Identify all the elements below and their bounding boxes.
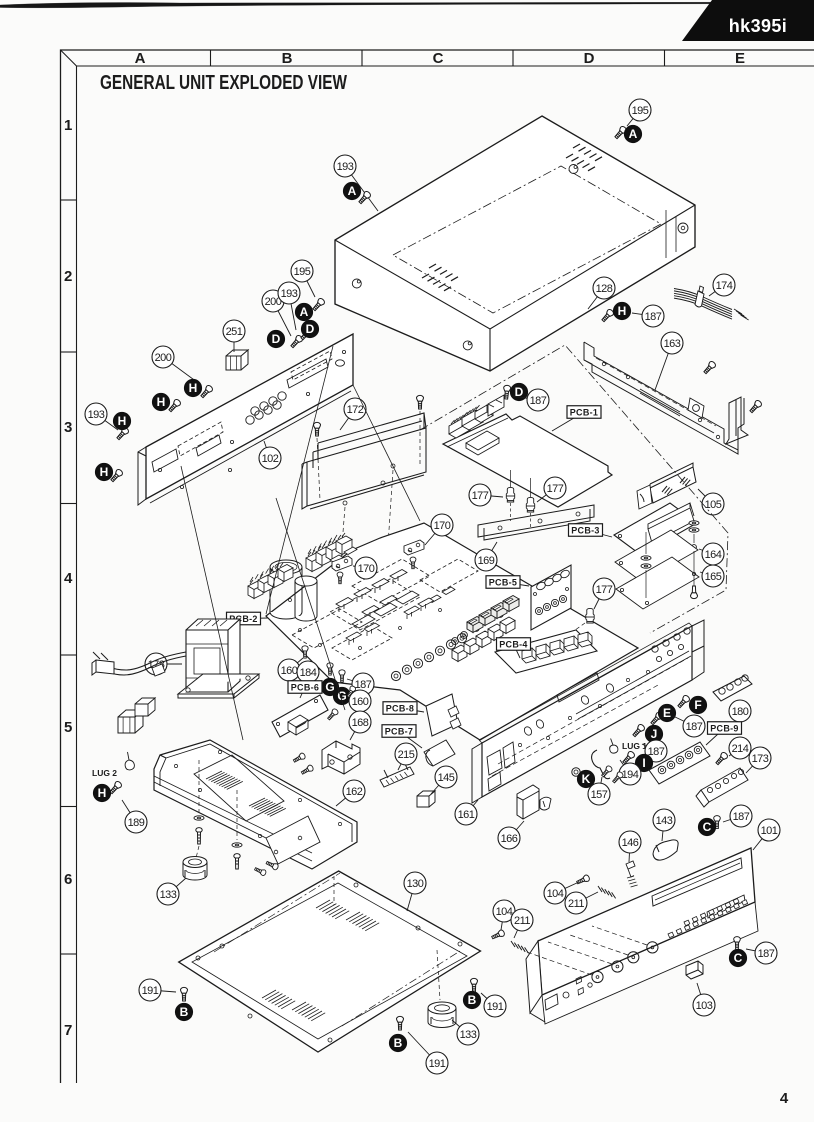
- wire harness 174 frayed ends: [734, 309, 749, 320]
- chassis 162 vent group 1: [206, 771, 243, 789]
- power cord: [110, 652, 186, 670]
- svg-text:5: 5: [64, 719, 72, 736]
- balloon 187 bottom right: [746, 942, 777, 964]
- letter D balloon upper-right: [301, 320, 318, 337]
- svg-text:PCB-6: PCB-6: [291, 682, 320, 692]
- chassis 162 washer and screw mid: [232, 843, 242, 847]
- heatsink bracket 172: [302, 413, 426, 509]
- svg-text:211: 211: [568, 898, 584, 910]
- sub panel 102 right opening: [287, 359, 328, 388]
- balloon 164: [699, 543, 724, 565]
- front panel 101 backing sheet: [542, 902, 758, 1024]
- PCB-1 flat module: [466, 431, 499, 455]
- balloon 102: [259, 441, 281, 469]
- svg-text:193: 193: [337, 161, 354, 173]
- screw near H top: [600, 308, 614, 323]
- relay row left on PCB-2: [248, 580, 263, 599]
- letter A balloon top-right: [624, 125, 641, 142]
- PCB-5 oval holes: [535, 569, 570, 591]
- top cover 128 rear vent slots: [566, 154, 595, 171]
- balloon 187 near C top: [723, 805, 752, 827]
- screws near 157: [600, 765, 613, 778]
- front chassis panel 161 outline: [482, 626, 692, 797]
- standoff 177 bottom: [586, 608, 594, 623]
- svg-text:173: 173: [752, 753, 769, 765]
- svg-text:H: H: [118, 414, 127, 428]
- svg-text:D: D: [584, 50, 595, 67]
- transistor group dashed box B: [352, 559, 430, 603]
- PCB-2 pin hatches near relays: [250, 563, 279, 582]
- balloon 105: [698, 489, 724, 515]
- front panel 101 knob shafts: [524, 951, 592, 975]
- svg-text:166: 166: [501, 833, 518, 845]
- PCB-2 dashed box C: [292, 609, 362, 648]
- balloon 184: [297, 661, 319, 683]
- AC connector box: [135, 698, 155, 716]
- svg-text:2: 2: [64, 268, 72, 285]
- panel 161 right end holes: [652, 628, 690, 652]
- panel 161 dashed lines: [498, 658, 688, 764]
- phono jack row small: [452, 611, 504, 645]
- svg-text:128: 128: [596, 283, 613, 295]
- bottom cover 130 dash-dot lines: [214, 873, 460, 1026]
- svg-text:B: B: [394, 1036, 403, 1050]
- transformer 178 top hatch: [196, 620, 227, 626]
- letter D balloon upper-left: [267, 330, 284, 347]
- svg-text:103: 103: [696, 1000, 713, 1012]
- heatsink 172 studs: [343, 464, 395, 505]
- svg-text:172: 172: [347, 404, 364, 416]
- balloon 168: [349, 711, 371, 740]
- svg-text:189: 189: [128, 817, 145, 829]
- chassis 162 inner wall: [160, 744, 352, 842]
- projection line panel102 right to PCB-2 top: [353, 385, 420, 521]
- PCB-1 connectors: [449, 418, 470, 438]
- row dividers: [61, 199, 77, 201]
- svg-text:6: 6: [64, 871, 72, 888]
- washers right of PCB-3: [689, 521, 699, 525]
- PCB-5 small holes: [534, 588, 569, 596]
- svg-text:7: 7: [64, 1022, 72, 1039]
- transformer 178 bracket: [178, 674, 259, 698]
- bracket 168: [322, 741, 360, 774]
- knob 103: [686, 961, 703, 979]
- transformer 178 core: [186, 619, 240, 692]
- svg-text:102: 102: [262, 453, 279, 465]
- PCB-5 jacks: [535, 595, 566, 614]
- balloon 133 right: [452, 1020, 479, 1045]
- bottom cover 130 vent group 2b: [292, 1002, 325, 1021]
- balloon 195 top-right: [627, 99, 651, 126]
- balloon 251: [223, 320, 245, 352]
- PCB-1 screw D3: [503, 385, 511, 399]
- relay row upper on PCB-2: [306, 550, 322, 572]
- PCB-1 board outline: [443, 414, 612, 507]
- part 143 head cap: [653, 840, 678, 860]
- panel 161 top lip: [479, 623, 692, 743]
- PCB-6 holes: [276, 699, 317, 725]
- chassis 162 vent group 2: [249, 798, 286, 816]
- balloon 215: [395, 743, 417, 770]
- mounting rail 169: [478, 505, 594, 540]
- svg-text:170: 170: [358, 563, 375, 575]
- svg-text:187: 187: [645, 311, 662, 323]
- balloon 166: [498, 821, 524, 849]
- PCB-2 white pads: [352, 591, 419, 628]
- svg-text:3: 3: [64, 419, 72, 436]
- sub panel 102 display opening: [196, 435, 221, 456]
- bracket 166 clip: [540, 797, 551, 810]
- dash-dot chassis outline around PCB-1: [420, 345, 728, 633]
- letter E balloon: [658, 704, 675, 721]
- screw I: [621, 750, 635, 765]
- spring 211 pair B: [511, 941, 529, 953]
- bottom cover 130 outline: [179, 871, 481, 1052]
- balloon 128: [588, 277, 615, 309]
- PCB-1 connector block 3: [475, 405, 493, 423]
- balloon 174: [709, 274, 735, 296]
- panel 161 centre slot: [557, 673, 599, 702]
- svg-text:H: H: [618, 304, 627, 318]
- screws under PCB-2: [302, 646, 308, 658]
- svg-text:177: 177: [547, 483, 564, 495]
- svg-text:H: H: [189, 381, 198, 395]
- svg-text:177: 177: [472, 490, 489, 502]
- rear bracket 163 tab with hole: [688, 398, 704, 418]
- balloon 101: [753, 819, 780, 850]
- svg-text:194: 194: [622, 769, 639, 781]
- PCB-7 label: [382, 725, 422, 748]
- svg-text:H: H: [100, 465, 109, 479]
- svg-text:184: 184: [300, 667, 317, 679]
- front panel 101 small buttons left: [576, 977, 584, 996]
- svg-text:hk395i: hk395i: [729, 16, 787, 36]
- PCB-1 inner edge: [447, 418, 508, 447]
- standoff 177 right guide: [530, 478, 532, 497]
- standoff 177 left: [506, 487, 514, 502]
- rear bracket 163 right end plate: [726, 397, 748, 444]
- bottom sheet of PCB-3 stack: [616, 557, 699, 609]
- clamp 170 A: [332, 556, 352, 571]
- sub panel 102 dashed opening: [178, 422, 223, 456]
- svg-text:177: 177: [596, 584, 613, 596]
- PCB-8 board: [426, 694, 458, 736]
- heatsink plate 105: [650, 463, 696, 503]
- svg-text:K: K: [582, 772, 591, 786]
- letter B balloon right: [463, 991, 480, 1008]
- svg-text:168: 168: [352, 717, 369, 729]
- svg-text:PCB-8: PCB-8: [386, 703, 415, 713]
- bracket 168 screws: [292, 752, 306, 764]
- svg-text:E: E: [735, 50, 745, 67]
- heatsink 172 dashed guide lines: [317, 438, 320, 500]
- chassis sub board: [266, 816, 320, 864]
- insulator sheet under PCB-3: [615, 530, 698, 582]
- letter F balloon: [689, 696, 706, 713]
- balloon 211 B: [511, 909, 533, 938]
- spring 211 pair A: [598, 886, 616, 898]
- balloon 200 mid: [152, 346, 201, 385]
- balloon 191 left: [139, 979, 176, 1001]
- svg-text:187: 187: [648, 746, 665, 758]
- screw 195 top-right: [613, 125, 627, 140]
- PCB-2 dashed box E: [332, 626, 392, 660]
- chassis sub board screws: [254, 866, 267, 876]
- svg-text:195: 195: [632, 105, 649, 117]
- svg-text:162: 162: [346, 786, 363, 798]
- screw on 163 right: [748, 399, 762, 414]
- bottom cover 130 inner line: [192, 883, 467, 1039]
- capacitor C2 on PCB-2: [295, 581, 317, 621]
- svg-text:170: 170: [434, 520, 451, 532]
- svg-text:PCB-7: PCB-7: [385, 726, 414, 736]
- svg-text:251: 251: [226, 326, 243, 338]
- balloon 133 left: [157, 878, 186, 905]
- letter G balloon b: [333, 687, 350, 704]
- letter D balloon PCB-1: [510, 383, 527, 400]
- PCB-4 board: [495, 630, 597, 673]
- svg-text:157: 157: [591, 789, 608, 801]
- chassis 162 small holes: [174, 750, 341, 837]
- screw H left: [115, 426, 129, 441]
- screw H lower-left: [109, 468, 123, 483]
- projection line 102 left to chassis: [181, 466, 243, 740]
- balloon 130: [404, 872, 426, 911]
- balloon 172: [340, 398, 366, 430]
- balloon 170 A: [353, 557, 377, 579]
- dashed guide from standoff 177: [540, 623, 585, 655]
- PCB-8 connectors: [448, 706, 461, 729]
- front panel 101 phones jack: [588, 983, 592, 987]
- PCB-2 dashed box D: [420, 559, 478, 592]
- speaker terminal jacks on PCB-2: [391, 671, 400, 680]
- part 146 spring: [627, 876, 638, 887]
- power plug blades: [93, 652, 108, 660]
- balloon 187 PCB-1: [513, 389, 549, 411]
- screw 191 bottom: [397, 1016, 404, 1030]
- balloon 193 upper: [278, 282, 300, 330]
- bottom sheet holes: [620, 572, 695, 604]
- balloon 146: [619, 831, 641, 862]
- wire clamp on 174: [695, 286, 704, 307]
- PCB-3 holes: [618, 534, 646, 550]
- letter I balloon: [635, 754, 652, 771]
- svg-text:195: 195: [294, 266, 311, 278]
- sub panel 102 right dashed opening: [291, 351, 332, 380]
- heatsink 105 bracket: [637, 485, 652, 509]
- front panel 101 left end cap: [526, 941, 545, 1022]
- svg-text:104: 104: [547, 888, 564, 900]
- balloon 177 bottom: [593, 578, 615, 609]
- svg-text:A: A: [629, 127, 638, 141]
- top cover 128 outline: [335, 116, 695, 371]
- cord strain relief: [152, 664, 165, 676]
- svg-text:H: H: [157, 395, 166, 409]
- svg-text:104: 104: [496, 906, 513, 918]
- screw 104 pair A: [576, 874, 591, 885]
- top cover 128 front vent slots: [422, 274, 451, 291]
- svg-text:163: 163: [664, 338, 681, 350]
- bottom cover 130 vent group 2a: [262, 990, 295, 1009]
- svg-text:C: C: [734, 951, 743, 965]
- PCB-2 board outline: [266, 523, 638, 740]
- svg-text:187: 187: [758, 948, 775, 960]
- chassis 162 centre platform: [194, 755, 284, 821]
- rear bracket 163 body: [584, 342, 744, 454]
- heatsink 172 screw right: [417, 395, 424, 409]
- balloon 103: [693, 983, 715, 1016]
- screw J: [631, 723, 645, 738]
- svg-text:160: 160: [281, 665, 298, 677]
- PCB-9 board: [649, 742, 710, 784]
- svg-text:193: 193: [88, 409, 105, 421]
- panel 161 left end cap: [472, 743, 482, 803]
- washers mid stack: [641, 556, 651, 560]
- rail 169 holes: [498, 512, 580, 530]
- front panel 101 power led: [563, 992, 569, 998]
- balloon 194: [619, 760, 641, 785]
- svg-text:200: 200: [155, 352, 172, 364]
- svg-text:187: 187: [733, 811, 750, 823]
- sub panel 102 lower-left window: [152, 449, 178, 472]
- svg-text:101: 101: [761, 825, 778, 837]
- balloon 177 right: [537, 477, 566, 502]
- balloon 187 top: [632, 305, 664, 327]
- svg-text:PCB-1: PCB-1: [570, 407, 599, 417]
- top cover 128 right flange hole: [678, 223, 688, 233]
- PCB-6 relay part: [288, 715, 308, 735]
- PCB-6 label: [288, 681, 322, 698]
- clamp 170 B: [404, 540, 424, 555]
- letter B balloon left: [175, 1003, 192, 1020]
- PCB-2 small parts row: [428, 595, 441, 603]
- svg-text:133: 133: [160, 889, 177, 901]
- panel 161 small holes: [518, 670, 649, 746]
- svg-text:164: 164: [705, 549, 722, 561]
- sub panel 102 oval hole: [336, 360, 345, 366]
- svg-text:PCB-3: PCB-3: [571, 525, 600, 535]
- letter A balloon top-left: [343, 182, 360, 199]
- svg-text:160: 160: [352, 696, 369, 708]
- svg-text:145: 145: [438, 772, 455, 784]
- bottom cover 130 guide dashes: [333, 876, 335, 905]
- PCB-9 jacks: [658, 746, 702, 774]
- chassis 162 outline: [154, 740, 357, 869]
- svg-text:165: 165: [705, 571, 722, 583]
- screw 191 left: [181, 987, 188, 1001]
- svg-text:D: D: [272, 332, 281, 346]
- letter J balloon: [645, 725, 662, 742]
- bracket 173 holes: [707, 769, 743, 792]
- PCB-3 stack guide lines: [645, 532, 647, 554]
- screw C bottom: [734, 937, 741, 950]
- PCB-1 label: [552, 406, 601, 431]
- projection line 172 to chassis: [276, 498, 345, 710]
- screw 214: [714, 751, 728, 766]
- balloon 191 right: [481, 993, 506, 1017]
- standoff 177 left guide: [510, 470, 512, 487]
- balloon 163: [655, 332, 683, 390]
- PCB-1 rear connector block: [488, 395, 504, 416]
- svg-text:169: 169: [478, 555, 495, 567]
- front panel 101 button row 2: [684, 899, 739, 926]
- svg-text:1: 1: [64, 117, 72, 134]
- projection line panel102 to PCB-2: [266, 346, 333, 614]
- svg-text:B: B: [468, 993, 477, 1007]
- part 251 lamp holder: [226, 350, 248, 370]
- bottom cover 130 vent group 1b: [346, 912, 379, 931]
- svg-text:A: A: [348, 184, 357, 198]
- svg-text:130: 130: [407, 878, 424, 890]
- screw F: [676, 694, 690, 709]
- sub panel 102 knob holes: [246, 401, 281, 424]
- foot 133 right: [428, 1008, 456, 1028]
- letter G balloon a: [321, 678, 338, 695]
- screw on 163 middle: [702, 360, 716, 375]
- svg-text:191: 191: [429, 1058, 446, 1070]
- svg-text:PCB-9: PCB-9: [710, 723, 739, 733]
- panel 161 rect holes: [487, 742, 515, 791]
- balloon 214: [729, 737, 751, 759]
- chassis 162 front face line: [154, 776, 312, 861]
- standoff 177 right: [526, 497, 534, 512]
- screw H bottom-left: [108, 780, 122, 795]
- PCB-5 label: [486, 576, 529, 589]
- letter H balloon mid: [184, 379, 201, 396]
- front panel 101 power button: [545, 994, 558, 1010]
- balloon 160 b: [349, 690, 371, 712]
- svg-text:4: 4: [780, 1090, 789, 1107]
- balloon 187 EF: [673, 715, 705, 737]
- letter H balloon left: [113, 412, 130, 429]
- PCB-3 board: [614, 503, 697, 555]
- svg-text:LUG 2: LUG 2: [92, 768, 117, 778]
- svg-text:E: E: [663, 706, 671, 720]
- volume motor 215: [380, 762, 414, 787]
- screw right of PCB-6: [326, 708, 339, 721]
- svg-text:214: 214: [732, 743, 749, 755]
- PCB-6 board: [272, 695, 328, 737]
- screw H mid: [199, 384, 213, 399]
- panel 161 oval holes: [523, 683, 615, 737]
- sub panel 102 outline: [146, 334, 353, 499]
- svg-text:C: C: [703, 820, 712, 834]
- top cover 128 inset dash-dot rectangle: [393, 166, 661, 313]
- bracket 173: [696, 768, 748, 807]
- svg-text:187: 187: [355, 679, 372, 691]
- svg-text:180: 180: [732, 706, 749, 718]
- letter H balloon bottom-left: [93, 784, 110, 801]
- PCB-4 label: [497, 638, 531, 658]
- letter C balloon bottom: [729, 949, 746, 966]
- column dividers: [210, 50, 212, 66]
- balloon 104 A: [544, 882, 579, 904]
- svg-text:4: 4: [64, 570, 73, 587]
- PCB-7 motor part: [424, 740, 455, 766]
- svg-text:A: A: [300, 305, 309, 319]
- chassis 162 washer and screw left: [194, 816, 204, 820]
- balloon 173: [746, 747, 771, 773]
- rear bracket 163 slot: [640, 389, 680, 416]
- balloon 200 upper: [262, 290, 291, 336]
- balloon 170 B: [425, 514, 453, 545]
- PCB-4 switch row: [522, 648, 536, 663]
- balloon 143: [653, 809, 675, 841]
- transformer 178 bracket holes: [186, 676, 250, 692]
- transistors on PCB-2: [336, 598, 353, 613]
- svg-text:F: F: [694, 698, 701, 712]
- balloon 157: [588, 777, 610, 805]
